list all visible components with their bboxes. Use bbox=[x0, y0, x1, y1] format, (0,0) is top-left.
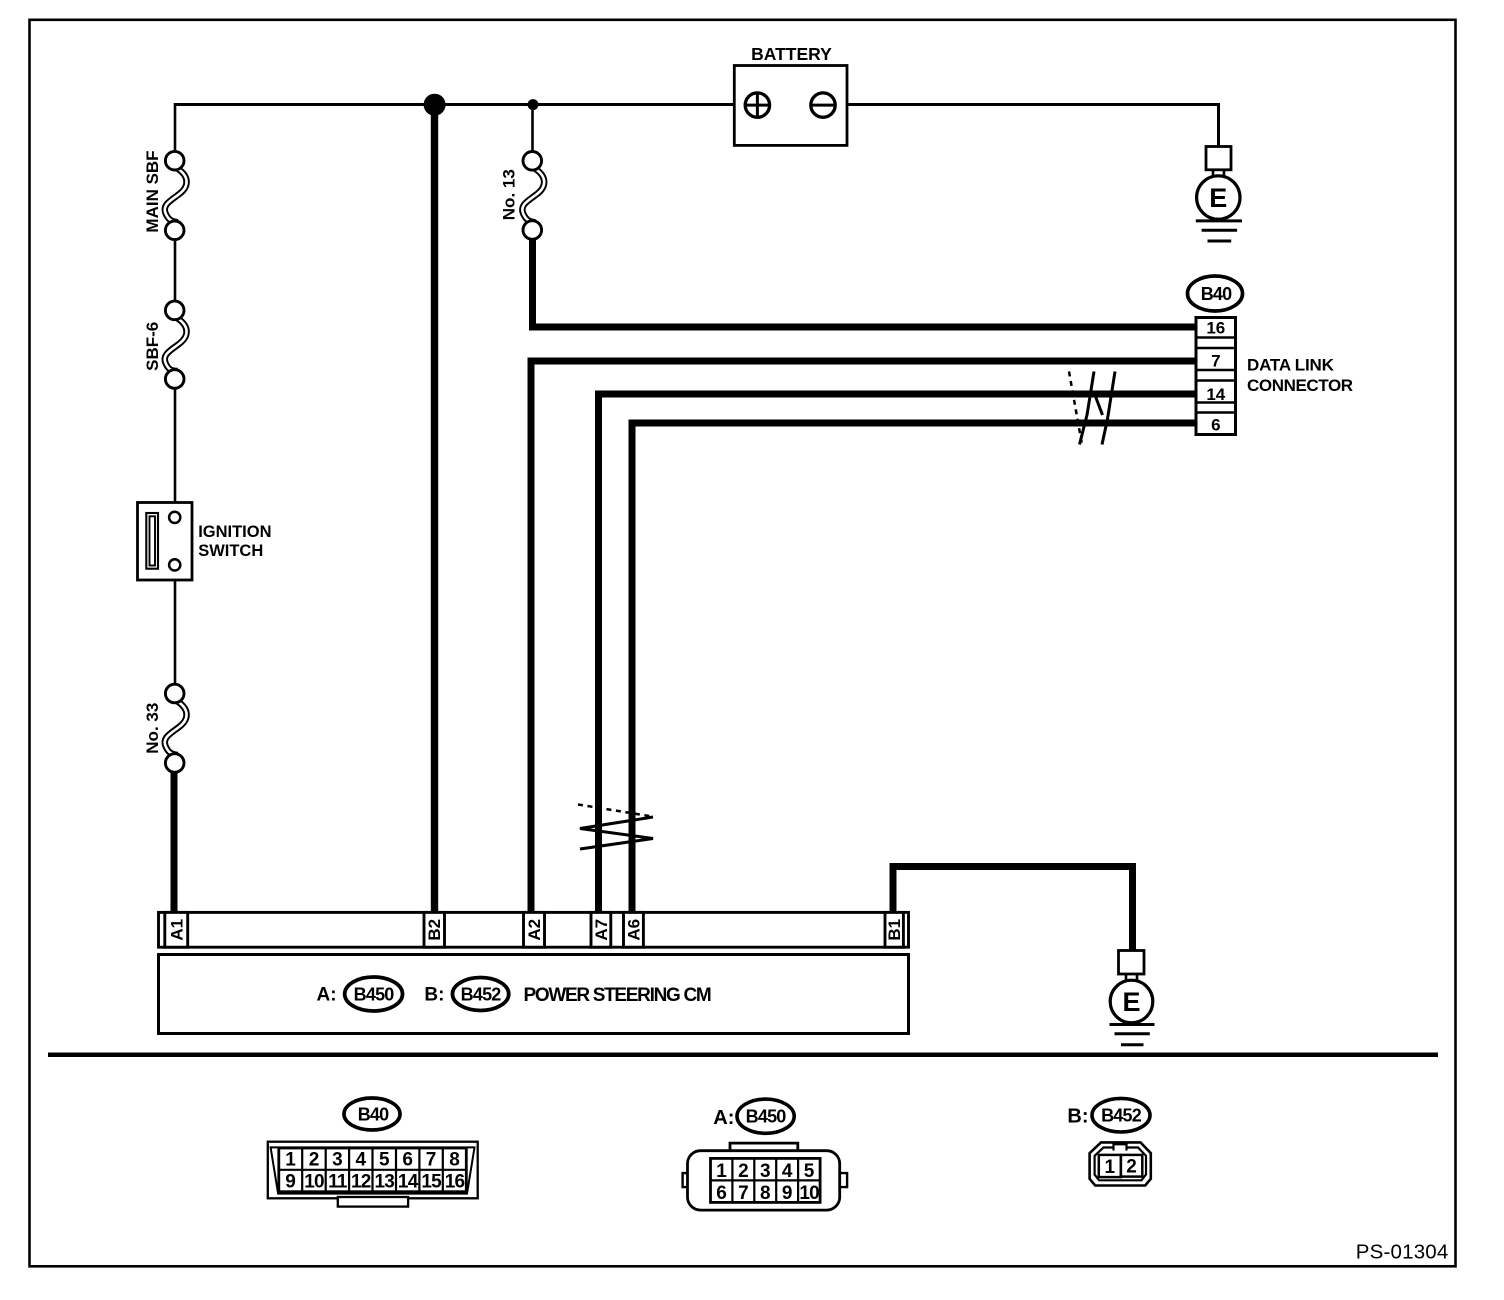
svg-text:7: 7 bbox=[1211, 351, 1220, 370]
wire thick B1 to ground bbox=[893, 867, 1133, 952]
svg-text:B40: B40 bbox=[1201, 284, 1232, 304]
svg-text:8: 8 bbox=[760, 1183, 771, 1204]
svg-text:12: 12 bbox=[351, 1172, 371, 1193]
connector B B452 oval bbox=[453, 978, 509, 1011]
ground E bottom bbox=[1110, 951, 1155, 1045]
svg-text:16: 16 bbox=[1206, 319, 1225, 338]
svg-text:SBF-6: SBF-6 bbox=[143, 322, 162, 371]
svg-text:1: 1 bbox=[716, 1161, 727, 1182]
svg-text:B2: B2 bbox=[425, 919, 444, 941]
svg-text:B:: B: bbox=[424, 985, 444, 1006]
svg-text:No. 33: No. 33 bbox=[143, 703, 162, 754]
junction node at B2 on bus bbox=[424, 94, 446, 116]
fuse MAIN SBF bbox=[143, 150, 187, 239]
section separator line bbox=[48, 1053, 1438, 1058]
wire No.13 branch drop bbox=[531, 103, 534, 152]
svg-text:POWER STEERING CM: POWER STEERING CM bbox=[524, 985, 711, 1006]
power steering CM box bbox=[159, 955, 909, 1034]
svg-text:1: 1 bbox=[285, 1150, 296, 1171]
svg-text:B452: B452 bbox=[1101, 1106, 1142, 1126]
svg-text:IGNITION: IGNITION bbox=[198, 523, 271, 541]
pin B1 bbox=[885, 912, 903, 947]
svg-text:E: E bbox=[1209, 183, 1227, 213]
svg-text:6: 6 bbox=[402, 1150, 413, 1171]
svg-text:E: E bbox=[1122, 987, 1140, 1017]
svg-text:SWITCH: SWITCH bbox=[198, 542, 263, 560]
wire right drop to ground bbox=[1217, 103, 1220, 148]
svg-text:B450: B450 bbox=[354, 985, 395, 1005]
connector B40 pinout body bbox=[268, 1142, 478, 1207]
svg-text:B:: B: bbox=[1067, 1106, 1088, 1128]
svg-text:A6: A6 bbox=[625, 919, 644, 941]
svg-text:5: 5 bbox=[804, 1161, 815, 1182]
svg-text:6: 6 bbox=[1211, 416, 1220, 435]
pin A1 bbox=[165, 912, 188, 947]
svg-text:9: 9 bbox=[782, 1183, 793, 1204]
ground E top right bbox=[1196, 147, 1242, 242]
svg-text:14: 14 bbox=[398, 1172, 419, 1193]
wire left branch vertical segments bbox=[174, 103, 177, 685]
fuse No. 33 bbox=[143, 684, 187, 772]
svg-text:B40: B40 bbox=[358, 1105, 389, 1125]
twisted pair crossing near data link connector bbox=[1069, 372, 1115, 445]
svg-text:13: 13 bbox=[375, 1172, 395, 1193]
svg-text:B452: B452 bbox=[461, 985, 502, 1005]
svg-text:No. 13: No. 13 bbox=[500, 169, 519, 220]
svg-text:10: 10 bbox=[304, 1172, 324, 1193]
pin A2 bbox=[524, 912, 545, 947]
junction node at No.13 branch on bus bbox=[528, 99, 539, 110]
connector B: B452 label oval bottom section bbox=[1067, 1098, 1150, 1132]
svg-text:1: 1 bbox=[1105, 1157, 1116, 1178]
data link connector pin stack bbox=[1196, 318, 1353, 435]
svg-text:PS-01304: PS-01304 bbox=[1356, 1241, 1449, 1264]
svg-text:10: 10 bbox=[799, 1183, 819, 1204]
svg-text:CONNECTOR: CONNECTOR bbox=[1247, 376, 1353, 395]
svg-text:DATA LINK: DATA LINK bbox=[1247, 355, 1335, 374]
connector B40 label oval bottom section bbox=[344, 1098, 400, 1130]
connector A B450 oval bbox=[345, 977, 403, 1011]
svg-text:7: 7 bbox=[426, 1150, 437, 1171]
svg-text:8: 8 bbox=[449, 1150, 460, 1171]
svg-text:2: 2 bbox=[738, 1161, 749, 1182]
wire thick A7 to DLC pin 14 bbox=[599, 394, 1197, 913]
svg-text:9: 9 bbox=[285, 1172, 296, 1193]
pin B2 bbox=[424, 912, 445, 947]
svg-text:MAIN SBF: MAIN SBF bbox=[143, 150, 162, 232]
svg-text:BATTERY: BATTERY bbox=[751, 44, 832, 64]
svg-text:3: 3 bbox=[760, 1161, 771, 1182]
svg-text:A7: A7 bbox=[592, 919, 611, 941]
fuse SBF-6 bbox=[143, 301, 187, 388]
power steering CM pin strip bbox=[159, 912, 909, 947]
svg-text:7: 7 bbox=[738, 1183, 749, 1204]
ignition switch bbox=[138, 503, 272, 581]
svg-text:15: 15 bbox=[421, 1172, 442, 1193]
svg-text:A:: A: bbox=[317, 985, 337, 1006]
svg-text:16: 16 bbox=[445, 1172, 465, 1193]
svg-text:3: 3 bbox=[332, 1150, 343, 1171]
wire thick A2 to DLC pin 7 bbox=[531, 361, 1196, 913]
svg-text:A1: A1 bbox=[167, 919, 186, 941]
svg-text:A:: A: bbox=[713, 1107, 734, 1129]
svg-text:4: 4 bbox=[356, 1150, 367, 1171]
svg-text:5: 5 bbox=[379, 1150, 390, 1171]
wire thick B2 vertical bbox=[431, 104, 438, 913]
connector B452 pinout body bbox=[1090, 1142, 1151, 1185]
pin A7 bbox=[591, 912, 611, 947]
connector B450 pinout body bbox=[683, 1143, 848, 1210]
connector A: B450 label oval bottom section bbox=[713, 1099, 794, 1133]
fuse No. 13 bbox=[500, 152, 545, 240]
svg-text:2: 2 bbox=[309, 1150, 320, 1171]
svg-text:2: 2 bbox=[1126, 1156, 1137, 1177]
wire top bus from left branch to battery to right ground bbox=[175, 103, 1219, 106]
wire thick No.13 fuse to DLC pin 16 bbox=[533, 239, 1197, 328]
svg-text:B1: B1 bbox=[885, 919, 904, 941]
battery bbox=[734, 44, 847, 145]
pin A6 bbox=[624, 912, 644, 947]
wire thick A1 vertical bbox=[171, 772, 178, 914]
svg-text:A2: A2 bbox=[525, 919, 544, 941]
svg-text:14: 14 bbox=[1206, 385, 1225, 404]
svg-text:B450: B450 bbox=[746, 1107, 787, 1127]
wire thick A6 to DLC pin 6 bbox=[632, 423, 1196, 913]
svg-text:4: 4 bbox=[782, 1161, 793, 1182]
twisted pair crossing near power steering CM bbox=[578, 805, 653, 850]
svg-text:11: 11 bbox=[328, 1172, 348, 1193]
connector B40 label oval at data link connector bbox=[1188, 276, 1243, 311]
svg-text:6: 6 bbox=[716, 1183, 727, 1204]
